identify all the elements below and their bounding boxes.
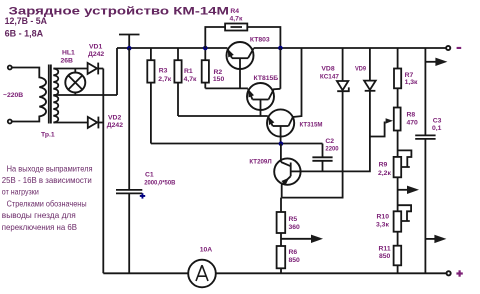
label R3 2,7k: [158, 68, 171, 83]
note text block: [2, 163, 93, 232]
terminal minus: [446, 46, 450, 50]
transistor KT803: [227, 42, 254, 88]
svg-text:Стрелками обозначены: Стрелками обозначены: [7, 199, 87, 209]
diode VD1: [88, 63, 104, 75]
top bus left segment: [117, 47, 227, 49]
svg-text:C2: C2: [325, 138, 334, 145]
svg-text:На выходе выпрамителя: На выходе выпрамителя: [7, 163, 93, 173]
wire secondary mid tap / lamp bottom rail: [53, 94, 117, 96]
svg-text:R10: R10: [377, 214, 390, 221]
wire R2 bottom to KT815 emitter: [205, 87, 248, 89]
resistor R7: [394, 48, 401, 108]
svg-text:КТ803: КТ803: [250, 36, 270, 43]
zener diode VD8: [337, 48, 349, 91]
svg-text:R8: R8: [407, 112, 416, 119]
resistor R9: [394, 131, 402, 212]
svg-text:2,7к: 2,7к: [158, 76, 171, 83]
transistor KT315M: [267, 48, 302, 144]
svg-text:2,2к: 2,2к: [378, 170, 391, 177]
svg-text:Д242: Д242: [107, 122, 123, 129]
label R9 2,2k: [378, 161, 391, 176]
label VD8 KC147: [320, 65, 339, 80]
socket bracket at R10 top: [398, 205, 412, 221]
label R8 470: [407, 112, 419, 127]
junction dot A: [127, 46, 132, 51]
svg-text:0,1: 0,1: [432, 125, 442, 132]
svg-text:VD2: VD2: [108, 115, 121, 122]
svg-text:1,3к: 1,3к: [405, 79, 418, 86]
svg-text:КТ315М: КТ315М: [300, 122, 323, 129]
terminal plus: [447, 271, 451, 275]
svg-text:R1: R1: [184, 68, 193, 75]
wire KT815 collector to top bus: [279, 48, 281, 89]
capacitor C3 rail: [415, 48, 435, 273]
svg-text:470: 470: [407, 119, 419, 126]
wire R1 bottom to KT315 emitter: [178, 115, 268, 117]
resistor R10: [394, 211, 402, 245]
arrow tap at R5/R6 junction: [281, 235, 323, 243]
svg-text:от нагрузки: от нагрузки: [2, 187, 39, 197]
resistor R11: [394, 246, 402, 274]
wire node KT209 emitter to VD8 rail: [282, 91, 343, 197]
wire rectifier output rail (VD1/VD2 cathodes down to bottom bus): [102, 69, 104, 274]
svg-text:выводы гнезда для: выводы гнезда для: [2, 210, 76, 220]
chassis T-bar: [119, 35, 140, 49]
label HL1 26V: [61, 50, 76, 65]
svg-text:4,7к: 4,7к: [230, 16, 243, 23]
svg-text:КТ815Б: КТ815Б: [254, 75, 279, 82]
svg-text:VD8: VD8: [321, 65, 334, 72]
wire R3 bottom to node D: [151, 143, 323, 145]
label R4 4,7k: [230, 8, 243, 23]
resistor R4: [205, 24, 280, 49]
svg-text:КТ209Л: КТ209Л: [249, 159, 271, 166]
svg-text:25В - 16В в зависимости: 25В - 16В в зависимости: [2, 175, 92, 185]
svg-text:Д242: Д242: [88, 51, 104, 58]
label R2 150: [213, 69, 225, 83]
label R5 360: [289, 216, 301, 231]
transformer core: [49, 65, 51, 124]
arrow tap top right: [425, 58, 447, 66]
svg-text:850: 850: [379, 253, 391, 260]
svg-text:3,3к: 3,3к: [376, 221, 389, 228]
svg-text:VD9: VD9: [355, 66, 366, 73]
svg-text:КС147: КС147: [320, 73, 339, 80]
resistor R2: [202, 48, 209, 88]
label plus: [456, 270, 462, 276]
bottom bus right: [216, 272, 447, 274]
resistor R6: [277, 246, 286, 273]
svg-text:HL1: HL1: [62, 50, 75, 57]
label R6 850: [289, 249, 301, 264]
label C1 plus polarity: [140, 193, 145, 198]
label C2 2200: [325, 138, 338, 153]
svg-text:переключения на 6В: переключения на 6В: [2, 222, 77, 232]
label C3 0,1: [432, 117, 442, 132]
label R11 850: [379, 246, 391, 261]
resistor R3: [147, 48, 154, 144]
svg-text:VD1: VD1: [89, 43, 102, 50]
arrow tap at R9/R10 junction: [398, 186, 419, 194]
svg-text:R9: R9: [379, 161, 388, 168]
title text: [5, 5, 229, 38]
svg-text:R6: R6: [289, 249, 298, 256]
svg-text:4,7к: 4,7к: [184, 76, 197, 83]
diode VD9: [364, 48, 376, 91]
resistor R1: [174, 48, 181, 116]
wire node KT209 collector to VD9 rail: [301, 91, 370, 172]
wire rail y95 up to top bus: [116, 48, 118, 95]
svg-text:2000,0*50В: 2000,0*50В: [144, 179, 175, 186]
svg-text:6В - 1,8А: 6В - 1,8А: [5, 29, 44, 39]
arrow tap bottom right: [425, 235, 446, 243]
potentiometer R8: [370, 108, 401, 137]
transformer Tr.1 secondary winding: [53, 69, 58, 123]
svg-text:Тр.1: Тр.1: [41, 132, 55, 139]
svg-text:150: 150: [213, 76, 225, 83]
capacitor C1: [116, 48, 142, 273]
label C1 value: [144, 172, 175, 187]
svg-text:360: 360: [289, 224, 301, 231]
junction dot B: [203, 46, 208, 51]
label R10 3,3k: [376, 214, 389, 229]
transistor KT209L: [274, 144, 300, 198]
svg-text:R2: R2: [214, 69, 223, 76]
svg-text:850: 850: [289, 257, 301, 264]
svg-text:C1: C1: [145, 172, 154, 179]
label VD1 D242: [88, 43, 104, 58]
label minus: [457, 47, 462, 49]
wire secondary top tap to VD1: [53, 68, 87, 70]
svg-text:R4: R4: [230, 8, 239, 15]
top bus right segment: [254, 47, 447, 49]
label VD2 D242: [107, 115, 123, 130]
svg-text:~220В: ~220В: [3, 92, 23, 99]
ammeter A: [188, 260, 216, 288]
resistor R5: [277, 198, 286, 246]
svg-text:10А: 10А: [200, 247, 213, 254]
svg-text:R11: R11: [379, 246, 391, 253]
label R7 1,3k: [405, 72, 418, 86]
svg-text:R3: R3: [159, 68, 168, 75]
svg-text:R5: R5: [289, 216, 298, 223]
wire secondary bottom tap to VD2: [53, 122, 88, 124]
junction dot C: [278, 46, 283, 51]
svg-text:C3: C3: [433, 117, 442, 124]
lamp HL1: [65, 69, 85, 96]
label R1 4,7k: [184, 68, 197, 83]
capacitor C2: [312, 144, 332, 172]
svg-text:12,7В - 5А: 12,7В - 5А: [5, 16, 48, 26]
transistor KT815B: [247, 83, 280, 116]
junction dot D: [279, 141, 284, 146]
svg-text:2200: 2200: [325, 146, 338, 153]
socket bracket at R9 top: [398, 150, 412, 167]
svg-text:26В: 26В: [61, 58, 74, 65]
bottom bus left: [103, 272, 188, 274]
transformer Tr.1 primary winding: [8, 66, 46, 124]
diode VD2: [88, 117, 104, 129]
